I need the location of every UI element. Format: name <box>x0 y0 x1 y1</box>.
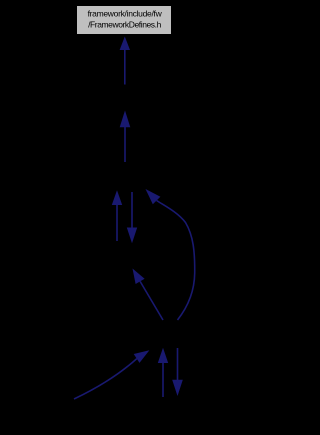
svg-text:framework/include/fw: framework/include/fw <box>88 9 163 19</box>
svg-text:/FrameworkDefines.h: /FrameworkDefines.h <box>88 20 161 30</box>
